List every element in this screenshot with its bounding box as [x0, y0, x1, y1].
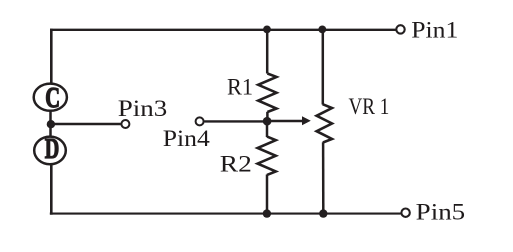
- wire R1 top lead: [266, 29, 269, 73]
- node VR1 top: [318, 26, 326, 34]
- wire left vertical bottom segment: [50, 165, 53, 215]
- node junction C-D Pin3 tap: [47, 120, 55, 128]
- wire Pin4 lead: [205, 120, 268, 122]
- svg-text:Pin4: Pin4: [163, 126, 211, 151]
- wire Pin3 lead: [50, 123, 120, 126]
- resistor R2: [258, 137, 276, 175]
- meter D: [34, 134, 66, 165]
- svg-text:Pin5: Pin5: [416, 199, 466, 224]
- svg-text:Pin1: Pin1: [411, 17, 458, 42]
- svg-text:Pin3: Pin3: [118, 96, 168, 121]
- terminal Pin5: [401, 209, 409, 217]
- terminal Pin1: [396, 25, 404, 33]
- meter C: [34, 83, 67, 114]
- node VR1 bottom: [319, 209, 327, 217]
- node R2 bottom: [263, 209, 271, 217]
- wire R2 bottom lead: [266, 175, 269, 214]
- wire bottom bus: [50, 213, 401, 215]
- svg-text:VR 1: VR 1: [349, 94, 390, 119]
- wire left vertical top segment: [50, 29, 53, 83]
- wire R1 bottom lead: [266, 112, 269, 122]
- svg-text:R2: R2: [220, 152, 252, 177]
- wire top bus: [50, 29, 396, 31]
- terminal Pin4: [196, 117, 204, 125]
- wire VR1 top lead: [322, 29, 325, 104]
- wiper arrow head: [302, 116, 311, 125]
- svg-text:C: C: [45, 83, 60, 114]
- wire C-D link: [49, 111, 52, 137]
- resistor R1: [258, 74, 276, 113]
- node R1 top: [263, 26, 271, 34]
- wire R2 top lead: [266, 121, 269, 137]
- terminal Pin3: [121, 120, 129, 128]
- svg-text:R1: R1: [227, 75, 253, 100]
- potentiometer VR1 element: [317, 104, 332, 142]
- wiper arrow shaft: [267, 120, 304, 122]
- wire VR1 bottom lead: [322, 142, 325, 213]
- node mid wiper junction: [263, 117, 272, 126]
- svg-text:D: D: [45, 134, 60, 165]
